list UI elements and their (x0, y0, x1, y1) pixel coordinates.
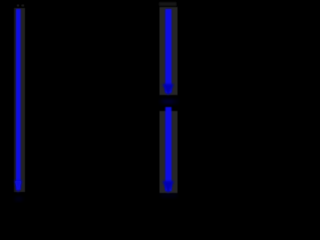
lane strip right upper top shadow (159, 2, 177, 6)
arrow C head (162, 181, 174, 194)
lane strip left top ticks (17, 4, 24, 6)
arrow C ghost smear below (161, 194, 177, 198)
arrow B shaft (right upper blue arrow) (165, 9, 171, 93)
arrow A head (14, 181, 22, 193)
arrow A shaft (left blue arrow) (16, 9, 21, 190)
lane strip left inner shade (14, 8, 16, 192)
ghost smear in gap (160, 99, 178, 104)
arrow A ghost smear below (15, 197, 23, 201)
arrow B head core (166, 88, 171, 93)
lane strip right upper (160, 7, 178, 95)
lane strip right lower (160, 111, 178, 193)
arrow C head core (166, 185, 171, 190)
lane strip left (14, 8, 25, 192)
arrow B head (162, 84, 174, 96)
arrow C shaft (right lower blue arrow) (165, 107, 171, 191)
